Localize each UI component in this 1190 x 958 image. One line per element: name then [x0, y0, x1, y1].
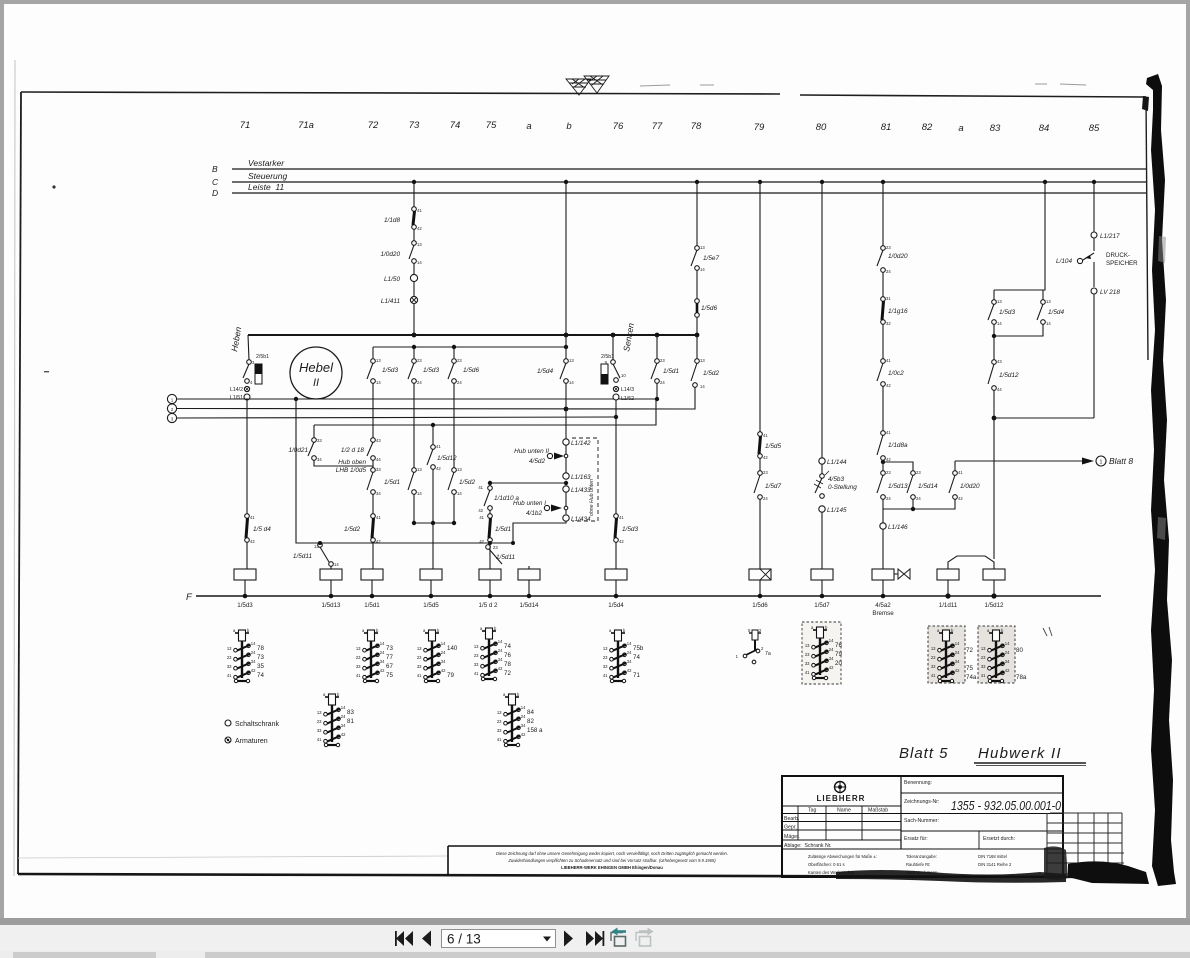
node 1 terminal — [167, 394, 176, 403]
svg-text:1/5d12: 1/5d12 — [999, 372, 1019, 379]
contact stack 1/5d1 — [417, 628, 446, 683]
svg-text:73: 73 — [386, 645, 393, 652]
svg-text:L1/434: L1/434 — [571, 516, 591, 523]
svg-text:1/5d4: 1/5d4 — [537, 368, 553, 375]
contact stack 1/5d4 — [603, 628, 632, 683]
svg-text:L1/51: L1/51 — [230, 395, 243, 401]
switch 1/5d12 43-44 — [992, 360, 997, 365]
svg-text:42: 42 — [479, 539, 484, 544]
svg-text:1/1d10 a: 1/1d10 a — [494, 495, 519, 502]
svg-text:L1/50: L1/50 — [384, 276, 400, 283]
wire Hub unten chain — [565, 409, 567, 439]
svg-text:Zeichnungs-Nr:: Zeichnungs-Nr: — [904, 799, 939, 805]
bus C Steuerung — [232, 181, 1146, 183]
wire col72 lower — [372, 460, 374, 468]
contact switch 1/5d6 small — [736, 628, 771, 664]
svg-text:Schaltschrank: Schaltschrank — [235, 721, 279, 728]
drawing frame right — [1146, 97, 1148, 360]
svg-text:Vestarker: Vestarker — [248, 158, 285, 168]
svg-text:1/5 d4: 1/5 d4 — [253, 526, 271, 533]
svg-text:41: 41 — [436, 444, 441, 449]
svg-text:1/5d11: 1/5d11 — [293, 553, 313, 560]
svg-text:14: 14 — [700, 267, 705, 272]
svg-text:79: 79 — [447, 672, 454, 679]
scanner edge black band — [1146, 74, 1176, 886]
svg-text:76: 76 — [835, 642, 842, 649]
wire — [993, 390, 995, 418]
switch 1/5d11 (to 1/5d4 coil) — [486, 545, 491, 550]
wire to relay — [615, 542, 617, 569]
svg-text:14: 14 — [997, 321, 1002, 326]
coil 1/5d12 — [983, 569, 1005, 580]
svg-text:24: 24 — [457, 380, 462, 385]
svg-text:LV 218: LV 218 — [1100, 289, 1120, 296]
svg-text:14: 14 — [417, 260, 422, 265]
next view icon (disabled) — [636, 928, 654, 947]
svg-text:80: 80 — [1016, 647, 1023, 654]
svg-text:Steuerung: Steuerung — [248, 171, 287, 181]
svg-text:72: 72 — [504, 670, 511, 677]
switch Hub oben LHB 1/0d5 — [371, 468, 376, 473]
svg-text:41: 41 — [417, 208, 422, 213]
svg-text:24: 24 — [763, 496, 768, 501]
switch 1/5d4 13-14 — [1042, 290, 1044, 300]
switch 1/5d11 (to 1/5d10 coil) — [318, 543, 323, 548]
lamp LV 218 — [1091, 288, 1097, 294]
coil 1/5d5 — [420, 569, 442, 580]
svg-text:42: 42 — [958, 496, 963, 501]
svg-text:13: 13 — [1046, 299, 1051, 304]
node — [431, 423, 435, 427]
svg-text:1/5d13: 1/5d13 — [322, 602, 341, 609]
svg-text:Ersetzt durch:: Ersetzt durch: — [983, 836, 1015, 842]
svg-text:42: 42 — [376, 539, 381, 544]
svg-text:71: 71 — [633, 672, 640, 679]
contact stack 1/5d10 — [356, 628, 385, 683]
bus D Leiste 11 — [232, 192, 1146, 194]
svg-text:42: 42 — [436, 466, 441, 471]
svg-text:14: 14 — [1046, 321, 1051, 326]
svg-text:13: 13 — [376, 358, 381, 363]
switch 1/0d20 23-24 — [881, 246, 886, 251]
svg-text:L1/145: L1/145 — [827, 507, 847, 514]
svg-text:71a: 71a — [298, 120, 314, 131]
node — [452, 345, 456, 349]
svg-text:1/5d2: 1/5d2 — [459, 479, 475, 486]
svg-text:1/2 d 18: 1/2 d 18 — [341, 447, 365, 454]
svg-text:L/104: L/104 — [1056, 258, 1072, 265]
svg-text:140: 140 — [447, 645, 458, 652]
svg-text:78: 78 — [691, 121, 702, 132]
svg-text:77: 77 — [386, 654, 393, 661]
svg-text:Oberflächen: 0 61 s: Oberflächen: 0 61 s — [808, 862, 845, 867]
svg-text:24: 24 — [886, 269, 891, 274]
svg-text:0-Stellung: 0-Stellung — [828, 484, 857, 491]
svg-text:1/1d11: 1/1d11 — [939, 602, 958, 609]
svg-text:74: 74 — [450, 120, 461, 131]
svg-text:L1/146: L1/146 — [888, 524, 908, 531]
svg-text:Rauhtiefe Rt:: Rauhtiefe Rt: — [906, 862, 930, 867]
svg-text:1/5d7: 1/5d7 — [814, 602, 830, 609]
svg-text:Benennung:: Benennung: — [904, 780, 932, 786]
legend Schaltschrank — [225, 720, 231, 726]
svg-text:72: 72 — [368, 120, 379, 131]
lamp L1/163 — [563, 473, 569, 479]
svg-text:23: 23 — [916, 470, 921, 475]
svg-text:Sach-Nummer:: Sach-Nummer: — [904, 818, 939, 824]
svg-text:10: 10 — [621, 373, 626, 378]
wire net3 — [177, 417, 616, 418]
svg-text:4/5a2: 4/5a2 — [875, 602, 891, 609]
wire H1 heavy rail — [248, 334, 698, 336]
junction dots on bus C — [412, 180, 1096, 184]
wire — [372, 494, 374, 514]
svg-text:79: 79 — [835, 651, 842, 658]
svg-text:1/5d3: 1/5d3 — [423, 367, 439, 374]
node — [294, 397, 298, 401]
copyright notice box — [448, 846, 782, 875]
svg-text:158 a: 158 a — [527, 727, 543, 734]
wire pair bottom rail — [994, 324, 1043, 336]
scan dashes above frame — [640, 84, 1086, 86]
svg-text:14: 14 — [417, 491, 422, 496]
svg-text:78: 78 — [504, 661, 511, 668]
wire to relay — [821, 512, 823, 569]
svg-text:34: 34 — [376, 491, 381, 496]
wire to relay — [882, 529, 884, 569]
svg-text:67: 67 — [386, 663, 393, 670]
column numbers — [240, 120, 1100, 134]
wire to relay — [246, 542, 248, 569]
contact 1/1d8 41-42 — [412, 207, 417, 212]
svg-text:42: 42 — [250, 539, 255, 544]
svg-text:43: 43 — [376, 438, 381, 443]
svg-text:78: 78 — [257, 645, 264, 652]
wire chain exit — [513, 521, 566, 543]
svg-text:75: 75 — [386, 672, 393, 679]
switch 1/0c2 41-42 — [881, 359, 886, 364]
svg-text:74: 74 — [257, 672, 264, 679]
svg-text:1/5d3: 1/5d3 — [999, 309, 1015, 316]
svg-text:Blatt 5: Blatt 5 — [899, 745, 949, 762]
svg-text:41: 41 — [619, 515, 624, 520]
contact stack 1/5d14 row2 — [497, 692, 526, 747]
svg-text:L1/217: L1/217 — [1100, 233, 1120, 240]
valve symbol — [894, 573, 898, 575]
svg-text:1/5d1: 1/5d1 — [495, 526, 511, 533]
switch 1/5d4 13-14 (col b) — [565, 335, 567, 359]
switch Heben 3-4 — [248, 335, 249, 360]
circle Hebel II — [290, 347, 342, 399]
svg-text:80: 80 — [816, 122, 827, 133]
wire col73 from bus C — [413, 182, 415, 207]
node — [318, 541, 322, 545]
svg-text:1/5d3: 1/5d3 — [237, 602, 253, 609]
wire — [413, 282, 415, 297]
svg-text:7a: 7a — [765, 651, 771, 657]
wire col 80 from bus C — [821, 182, 823, 458]
svg-text:44: 44 — [376, 457, 381, 462]
svg-text:41: 41 — [478, 485, 483, 490]
svg-text:78a: 78a — [1016, 674, 1027, 681]
svg-text:Bremse: Bremse — [872, 610, 894, 617]
coil 1/5d6 brake — [749, 569, 771, 580]
bus B Vestarker — [232, 168, 1146, 170]
right small grid — [1047, 813, 1124, 874]
svg-text:1/5d3: 1/5d3 — [382, 367, 398, 374]
contact 1/5d2 41-42 — [371, 514, 376, 519]
svg-text:14: 14 — [700, 384, 705, 389]
wire arrow to Blatt 8 — [955, 460, 1082, 462]
svg-text:Diese Zeichnung darf ohne unse: Diese Zeichnung darf ohne unsere Genehmi… — [496, 851, 728, 856]
svg-text:DRUCK-: DRUCK- — [1106, 252, 1130, 259]
svg-text:73: 73 — [257, 654, 264, 661]
wire col72 down — [372, 383, 374, 425]
svg-text:LIEBHERR-WERK EHINGEN GMBH Ehi: LIEBHERR-WERK EHINGEN GMBH Ehingen/Donau — [561, 865, 663, 870]
wire — [1093, 238, 1095, 251]
svg-text:Blatt 8: Blatt 8 — [1109, 456, 1133, 466]
svg-text:1/5d14: 1/5d14 — [918, 483, 938, 490]
svg-text:23: 23 — [660, 358, 665, 363]
wire — [453, 494, 455, 523]
svg-text:82: 82 — [527, 718, 534, 725]
svg-text:33: 33 — [376, 467, 381, 472]
coil 1/5d3 — [234, 569, 256, 580]
fold mark triangles — [566, 76, 609, 95]
node — [695, 333, 700, 338]
svg-text:Maßstab: Maßstab — [868, 808, 888, 814]
wire — [413, 263, 415, 274]
switch 1/5d14 23-24 — [911, 471, 916, 476]
svg-text:32: 32 — [886, 321, 891, 326]
svg-text:83: 83 — [347, 709, 354, 716]
svg-text:42: 42 — [886, 383, 891, 388]
coil 1/5d7 — [811, 569, 833, 580]
svg-text:b: b — [566, 121, 571, 132]
svg-text:41: 41 — [886, 430, 891, 435]
node — [452, 521, 456, 525]
node — [614, 415, 618, 419]
svg-text:41: 41 — [376, 515, 381, 520]
wire to relay — [759, 499, 761, 569]
svg-text:75: 75 — [486, 120, 497, 131]
wire — [565, 492, 567, 514]
wire cross link — [994, 417, 1094, 419]
coil 1/5d10 — [320, 569, 342, 580]
wire — [882, 386, 884, 431]
svg-text:1/5d12: 1/5d12 — [985, 602, 1004, 609]
svg-text:42: 42 — [886, 457, 891, 462]
svg-text:23: 23 — [457, 358, 462, 363]
svg-text:1/1d8: 1/1d8 — [384, 217, 400, 224]
svg-text:1/5d1: 1/5d1 — [663, 368, 679, 375]
svg-text:1/5d4: 1/5d4 — [1048, 309, 1064, 316]
wire H2 rail — [373, 346, 566, 348]
svg-text:74: 74 — [504, 643, 511, 650]
svg-text:L1/433: L1/433 — [571, 487, 591, 494]
wire — [759, 458, 761, 471]
wire — [565, 445, 567, 473]
switch 1/5d3 23-24 (col 73) — [413, 347, 415, 358]
svg-text:1/0d20: 1/0d20 — [960, 483, 980, 490]
svg-text:83: 83 — [990, 123, 1001, 134]
logo LIEBHERR — [835, 782, 846, 793]
contact 1/5d5 41-42 — [758, 432, 763, 437]
svg-text:6 / 13: 6 / 13 — [447, 932, 481, 947]
svg-text:Zulässige Abweichungen für Maß: Zulässige Abweichungen für Maße ±: — [808, 854, 877, 859]
svg-text:1/5d6: 1/5d6 — [463, 367, 479, 374]
switch 1/1d10a 41-42 (col a) — [490, 482, 566, 484]
drawing frame left — [18, 92, 21, 874]
svg-text:Hubwerk II: Hubwerk II — [978, 745, 1062, 762]
contact 1/5d1 41-42 (col a) — [488, 514, 493, 519]
svg-text:74: 74 — [633, 654, 640, 661]
svg-text:74a: 74a — [966, 674, 977, 681]
coil 1/1d11 — [937, 569, 959, 580]
svg-text:D: D — [212, 188, 218, 198]
svg-text:23: 23 — [763, 470, 768, 475]
svg-text:82: 82 — [922, 122, 933, 133]
wire 1/5d1 down to net1 — [656, 383, 658, 399]
wire — [489, 510, 491, 514]
svg-text:1/1d8a: 1/1d8a — [888, 442, 908, 449]
svg-text:II: II — [313, 377, 319, 389]
svg-text:41: 41 — [763, 433, 768, 438]
contact 1/1g16 31-32 — [881, 297, 886, 302]
contact 1/5d3 41-42 (col 76) — [614, 514, 619, 519]
wire bridge to 1/1d11 — [948, 556, 994, 569]
svg-text:35: 35 — [257, 663, 264, 670]
scan speck — [52, 185, 55, 188]
wire lower rail — [883, 499, 955, 509]
wire — [413, 304, 415, 335]
wire to relay — [372, 542, 374, 569]
svg-text:14: 14 — [457, 491, 462, 496]
lamp L1/52 — [613, 394, 619, 400]
svg-text:1/5d6: 1/5d6 — [752, 602, 768, 609]
svg-text:1: 1 — [1100, 460, 1103, 466]
wire to relay row — [296, 399, 513, 543]
switch 4/5b3 0-Stellung — [820, 474, 825, 479]
lamp L14/2 — [244, 386, 249, 391]
svg-text:85: 85 — [1089, 123, 1100, 134]
switch 1/5d2 13-14 (col 74 lower) — [453, 383, 455, 468]
switch 1/0d20 41-42 — [953, 471, 958, 476]
node — [412, 521, 416, 525]
wire — [565, 383, 567, 409]
contact stack 1/5d13 row2 — [317, 692, 346, 747]
legend Armaturen — [225, 737, 231, 743]
svg-text:L1/144: L1/144 — [827, 459, 847, 466]
svg-text:1/5d5: 1/5d5 — [765, 443, 781, 450]
dashed box ohne Hub unten — [572, 438, 598, 521]
svg-text:41: 41 — [886, 358, 891, 363]
svg-text:77: 77 — [652, 121, 663, 132]
switch 1/5d1 23-24 (col 77) — [656, 335, 658, 359]
drawing frame top — [21, 92, 1146, 97]
svg-text:13: 13 — [700, 358, 705, 363]
svg-text:1/0d20: 1/0d20 — [380, 251, 400, 258]
bus F — [196, 595, 1101, 597]
smudge over grid — [1044, 846, 1068, 880]
switch 1/0d21 33-34 — [313, 425, 315, 438]
svg-text:Gepr.: Gepr. — [784, 825, 797, 831]
svg-text:42: 42 — [619, 539, 624, 544]
svg-text:75: 75 — [966, 665, 973, 672]
svg-text:1/5d7: 1/5d7 — [765, 483, 781, 490]
node — [992, 416, 997, 421]
svg-text:Ablage: Schrank Nr.: Ablage: Schrank Nr. — [784, 843, 832, 849]
svg-text:1/0d20: 1/0d20 — [888, 253, 908, 260]
svg-text:2/5b1: 2/5b1 — [256, 354, 269, 360]
svg-text:24: 24 — [886, 496, 891, 501]
switch 1/2d18 43-44 — [372, 425, 374, 438]
svg-text:14: 14 — [569, 380, 574, 385]
switch 1/5d12 (col 74-75) — [432, 425, 434, 445]
svg-text:23: 23 — [886, 245, 891, 250]
svg-text:ohne Hub unten: ohne Hub unten — [589, 479, 595, 516]
contact 1/5d4 41-42 (col 71) — [246, 400, 248, 514]
svg-text:L1/163: L1/163 — [571, 474, 591, 481]
wire to 1/5d2 contact — [566, 408, 695, 410]
switch 1/5d6 23-24 (col 74) — [453, 347, 455, 358]
contact stack 1/5d3 — [227, 628, 256, 683]
svg-text:84: 84 — [1039, 123, 1050, 134]
wire — [696, 270, 698, 299]
node — [412, 345, 416, 349]
left table lines — [782, 806, 901, 849]
wire coil feed — [489, 544, 491, 569]
node — [564, 407, 569, 412]
svg-text:a: a — [958, 123, 963, 134]
svg-text:42: 42 — [763, 455, 768, 460]
svg-text:13: 13 — [997, 299, 1002, 304]
wire — [821, 464, 823, 474]
svg-text:Hub oben: Hub oben — [338, 459, 366, 466]
svg-text:L1/411: L1/411 — [381, 298, 401, 305]
wire col 79 from bus C — [759, 182, 761, 432]
svg-text:13: 13 — [569, 358, 574, 363]
svg-text:84: 84 — [527, 709, 534, 716]
svg-text:23: 23 — [417, 358, 422, 363]
svg-text:44: 44 — [997, 387, 1002, 392]
svg-text:42: 42 — [478, 508, 483, 513]
lamp L1/51 — [244, 394, 250, 400]
svg-text:43: 43 — [997, 359, 1002, 364]
page combobox 6/13 — [442, 930, 556, 948]
svg-text:31: 31 — [886, 296, 891, 301]
node H1 — [412, 333, 417, 338]
node — [992, 334, 996, 338]
last page button — [586, 931, 604, 946]
svg-text:Tag: Tag — [808, 808, 816, 814]
node — [611, 333, 616, 338]
wire — [413, 229, 415, 241]
svg-text:76: 76 — [504, 652, 511, 659]
svg-text:1/5d5: 1/5d5 — [423, 602, 439, 609]
svg-text:1/5d6: 1/5d6 — [701, 305, 717, 312]
lamp L1/146 — [882, 509, 884, 523]
wire down to coils — [993, 418, 995, 559]
svg-text:C: C — [212, 177, 219, 187]
switch 1/5e7 13-14 — [695, 246, 700, 251]
svg-text:34: 34 — [317, 457, 322, 462]
drawing frame bottom — [18, 874, 1110, 877]
svg-text:Hebel: Hebel — [299, 360, 334, 375]
switch 1/1d8a 41-42 — [881, 431, 886, 436]
wire — [1093, 294, 1095, 418]
svg-text:23: 23 — [886, 470, 891, 475]
